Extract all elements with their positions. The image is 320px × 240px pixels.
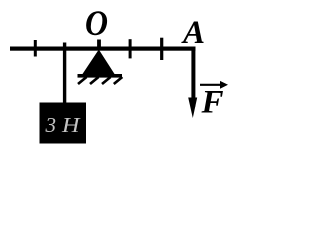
pivot triangle (fulcrum) (82, 50, 116, 76)
svg-text:F: F (201, 85, 224, 121)
vector arrow over F: shaft (200, 84, 222, 86)
ground hatch 1 (78, 77, 87, 84)
ground hatch 2 (90, 77, 99, 84)
beam (lever bar) (10, 47, 196, 51)
svg-text:Н: Н (61, 113, 82, 137)
svg-text:O: O (85, 3, 108, 43)
tick mark 1 (34, 40, 37, 57)
pivot stub above beam at O (97, 40, 101, 49)
svg-text:3: 3 (45, 113, 57, 137)
right end vertical segment and force shaft at A (191, 47, 195, 107)
ground line under fulcrum (78, 74, 123, 78)
hanger rod (tick 2 extended down to weight) (63, 43, 66, 104)
vector arrow over F: head (220, 81, 228, 89)
tick mark 3 (129, 39, 132, 58)
tick mark 4 (160, 38, 163, 60)
weight box (40, 103, 87, 144)
force arrowhead (down) (188, 98, 197, 119)
svg-text:A: A (181, 15, 205, 51)
ground hatch 3 (102, 77, 111, 84)
ground hatch 4 (114, 77, 123, 84)
